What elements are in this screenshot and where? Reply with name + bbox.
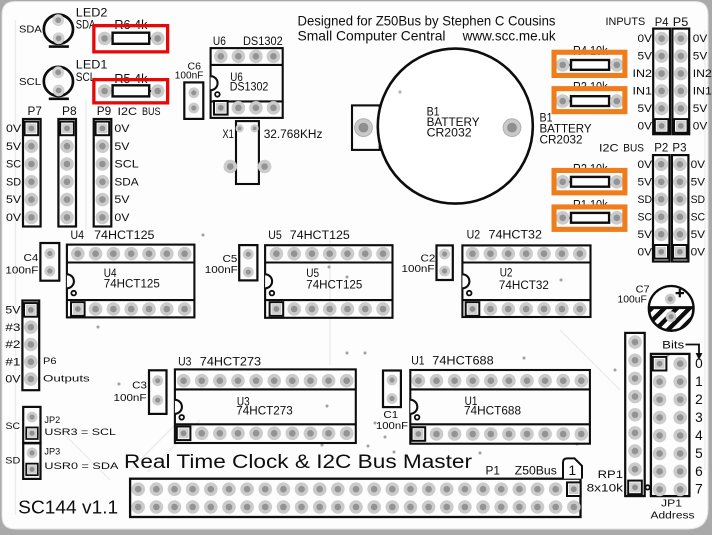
svg-text:5V: 5V (638, 229, 654, 241)
svg-text:0V: 0V (638, 159, 654, 171)
svg-text:7: 7 (695, 482, 703, 497)
svg-text:74HCT273: 74HCT273 (236, 404, 293, 418)
svg-text:100nF: 100nF (205, 265, 238, 276)
svg-text:5V: 5V (693, 51, 709, 63)
svg-text:Z50Bus: Z50Bus (515, 463, 557, 477)
svg-text:5V: 5V (114, 194, 130, 206)
svg-text:Address: Address (651, 511, 695, 522)
svg-text:74HCT273: 74HCT273 (200, 355, 262, 369)
svg-text:Small Computer Central: Small Computer Central (298, 28, 446, 44)
svg-text:0V: 0V (638, 121, 654, 133)
svg-text:5V: 5V (693, 103, 709, 115)
svg-text:RP1: RP1 (598, 469, 623, 481)
svg-text:U5: U5 (268, 228, 282, 242)
svg-text:SDA: SDA (114, 176, 139, 188)
svg-text:P4: P4 (655, 15, 669, 29)
svg-text:BUS: BUS (623, 142, 644, 154)
svg-text:JP1: JP1 (661, 499, 683, 510)
svg-text:0V: 0V (114, 212, 130, 224)
svg-text:100nF: 100nF (402, 264, 435, 275)
svg-text:5V: 5V (638, 103, 654, 115)
svg-text:4: 4 (695, 428, 703, 443)
svg-text:SD: SD (5, 456, 20, 467)
svg-text:SC144 v1.1: SC144 v1.1 (18, 496, 118, 517)
svg-text:Real Time Clock & I2C Bus Mast: Real Time Clock & I2C Bus Master (124, 452, 473, 473)
svg-text:SC: SC (6, 421, 21, 432)
svg-text:100nF: 100nF (5, 265, 38, 276)
svg-text:P5: P5 (673, 15, 689, 29)
svg-text:#3: #3 (5, 322, 20, 334)
svg-text:C2: C2 (421, 254, 436, 265)
svg-text:0V: 0V (5, 374, 21, 386)
svg-text:5V: 5V (691, 176, 707, 188)
svg-text:74HCT32: 74HCT32 (499, 278, 549, 292)
svg-text:0V: 0V (6, 123, 22, 135)
svg-text:DS1302: DS1302 (243, 34, 283, 48)
svg-text:0: 0 (695, 356, 703, 371)
svg-text:U6: U6 (213, 34, 226, 48)
svg-text:P2: P2 (654, 140, 668, 154)
svg-text:5V: 5V (6, 141, 22, 153)
svg-text:5V: 5V (691, 229, 707, 241)
svg-text:SCL: SCL (114, 159, 138, 171)
svg-text:0V: 0V (693, 121, 709, 133)
svg-text:0V: 0V (691, 159, 707, 171)
svg-text:IN1: IN1 (693, 86, 712, 98)
svg-text:SD: SD (6, 176, 21, 188)
svg-text:74HCT688: 74HCT688 (432, 354, 494, 368)
svg-text:74HCT32: 74HCT32 (489, 227, 543, 241)
svg-text:74HCT125: 74HCT125 (290, 228, 350, 242)
svg-text:IN2: IN2 (633, 68, 653, 80)
svg-text:0V: 0V (693, 33, 709, 45)
svg-text:INPUTS: INPUTS (606, 16, 646, 28)
svg-text:Designed for Z50Bus by Stephen: Designed for Z50Bus by Stephen C Cousins (298, 13, 556, 29)
svg-text:100nF: 100nF (376, 421, 408, 432)
svg-text:C5: C5 (223, 254, 238, 265)
svg-text:74HCT125: 74HCT125 (94, 228, 155, 242)
svg-text:CR2032: CR2032 (427, 126, 472, 140)
svg-text:0V: 0V (638, 33, 654, 45)
svg-text:#1: #1 (5, 356, 20, 368)
svg-text:JP3: JP3 (44, 447, 60, 458)
svg-text:5V: 5V (638, 176, 654, 188)
svg-text:0V: 0V (691, 246, 707, 258)
svg-text:P8: P8 (62, 104, 77, 118)
svg-text:U4: U4 (71, 228, 85, 242)
svg-text:74HCT688: 74HCT688 (464, 404, 521, 418)
svg-text:U2: U2 (467, 227, 481, 241)
svg-text:C3: C3 (132, 381, 147, 392)
svg-text:Outputs: Outputs (43, 374, 90, 385)
svg-text:74HCT125: 74HCT125 (306, 278, 362, 292)
svg-text:SDA: SDA (19, 24, 42, 35)
svg-text:5V: 5V (114, 141, 130, 153)
svg-text:74HCT125: 74HCT125 (104, 277, 160, 291)
svg-text:USR0 = SDA: USR0 = SDA (44, 461, 119, 472)
svg-text:1: 1 (568, 462, 576, 478)
svg-text:I2C: I2C (118, 106, 138, 118)
svg-text:U3: U3 (178, 355, 191, 369)
svg-text:0V: 0V (114, 123, 130, 135)
svg-text:5V: 5V (638, 51, 654, 63)
svg-text:P7: P7 (28, 104, 43, 118)
svg-text:32.768KHz: 32.768KHz (264, 127, 323, 141)
svg-text:DS1302: DS1302 (230, 79, 269, 93)
svg-text:IN1: IN1 (633, 86, 653, 98)
svg-text:100nF: 100nF (175, 71, 204, 82)
svg-text:100nF: 100nF (114, 393, 147, 404)
svg-text:JP2: JP2 (44, 415, 60, 426)
svg-text:X1: X1 (222, 127, 234, 141)
svg-text:0V: 0V (638, 246, 654, 258)
svg-text:3: 3 (695, 410, 703, 425)
svg-text:6: 6 (695, 464, 703, 479)
svg-text:P3: P3 (672, 140, 686, 154)
svg-text:SC: SC (638, 211, 653, 223)
svg-text:2: 2 (695, 392, 703, 407)
svg-text:P1: P1 (486, 463, 501, 477)
svg-text:SC: SC (6, 159, 21, 171)
svg-text:I2C: I2C (599, 142, 619, 154)
svg-text:5V: 5V (5, 305, 21, 317)
svg-text:P9: P9 (97, 104, 112, 118)
svg-text:C1: C1 (383, 410, 398, 421)
svg-text:P6: P6 (43, 356, 57, 367)
svg-text:BUS: BUS (142, 106, 161, 118)
svg-text:IN2: IN2 (693, 68, 712, 80)
svg-text:5: 5 (695, 446, 703, 461)
svg-text:SCL: SCL (19, 77, 41, 88)
svg-text:C4: C4 (24, 253, 39, 264)
svg-text:SD: SD (638, 194, 653, 206)
svg-text:U1: U1 (411, 354, 424, 368)
svg-text:CR2032: CR2032 (540, 133, 583, 147)
svg-text:100uF: 100uF (618, 294, 647, 305)
svg-text:SD: SD (691, 194, 706, 206)
svg-text:#2: #2 (5, 339, 20, 351)
svg-text:1: 1 (695, 374, 703, 389)
svg-text:USR3 = SCL: USR3 = SCL (44, 427, 116, 438)
svg-text:SC: SC (691, 211, 706, 223)
svg-text:8x10k: 8x10k (587, 482, 624, 494)
svg-text:www.scc.me.uk: www.scc.me.uk (462, 28, 557, 44)
svg-text:Bits: Bits (662, 339, 685, 351)
svg-text:5V: 5V (6, 194, 22, 206)
svg-text:0V: 0V (6, 212, 22, 224)
